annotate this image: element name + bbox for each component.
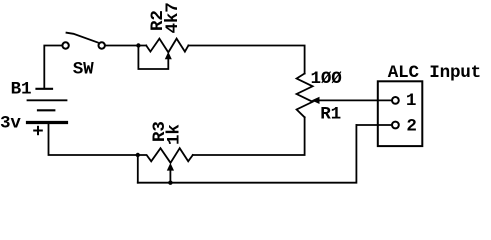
battery B1 plate 2 (long) xyxy=(28,99,67,101)
R1 wiper arrow pointing left into zigzag xyxy=(318,99,392,101)
pin 2 terminal circle xyxy=(392,122,399,129)
wire R3 left junction down to bottom rail xyxy=(137,155,139,183)
connector box ALC Input xyxy=(378,81,423,146)
svg-text:4k7: 4k7 xyxy=(163,2,183,33)
svg-text:B1: B1 xyxy=(11,79,32,99)
switch SW xyxy=(62,33,105,49)
svg-text:1k: 1k xyxy=(164,124,184,145)
svg-text:ALC Input: ALC Input xyxy=(388,63,481,83)
wire top-left corner from switch to battery top xyxy=(44,46,61,88)
node junction dot at R3 wiper on bottom rail xyxy=(168,181,172,185)
wire battery positive down and right to R3 left xyxy=(49,124,138,155)
R3 wiper arrow from bottom rail xyxy=(169,169,171,183)
resistor R3 (trimmer) zigzag xyxy=(138,148,193,163)
R2 wiper arrowhead xyxy=(165,52,172,59)
battery B1 plate 3 (short) xyxy=(38,109,54,111)
plus sign of battery xyxy=(34,127,42,134)
wire bottom rail from R3 junction to ALC pin 2 riser xyxy=(138,125,357,183)
wire ALC pin 2 horizontal xyxy=(356,124,391,126)
wire switch to R2 left xyxy=(106,45,147,47)
svg-text:1: 1 xyxy=(406,91,416,111)
svg-text:SW: SW xyxy=(73,60,94,80)
pin 1 terminal circle xyxy=(392,97,399,104)
wire R2 wiper loop to left terminal xyxy=(138,46,168,70)
node junction dot at R2 left terminal xyxy=(136,43,140,47)
resistor R2 (trimmer) zigzag xyxy=(146,39,188,53)
resistor R1 (potentiometer) vertical zigzag xyxy=(297,74,313,118)
battery B1 plate 4 (long, positive) xyxy=(28,121,67,124)
wire R3 right to R1 bottom riser xyxy=(193,117,305,155)
svg-text:R1: R1 xyxy=(320,105,341,125)
svg-text:1ØØ: 1ØØ xyxy=(311,69,343,89)
battery B1 plate 1 (short, top) xyxy=(37,88,53,90)
svg-text:2: 2 xyxy=(406,117,416,137)
node junction dot at R3 left terminal xyxy=(136,153,140,157)
wire R2 right to top-right corner, down to R1 top xyxy=(188,46,304,74)
svg-text:3v: 3v xyxy=(0,113,21,133)
